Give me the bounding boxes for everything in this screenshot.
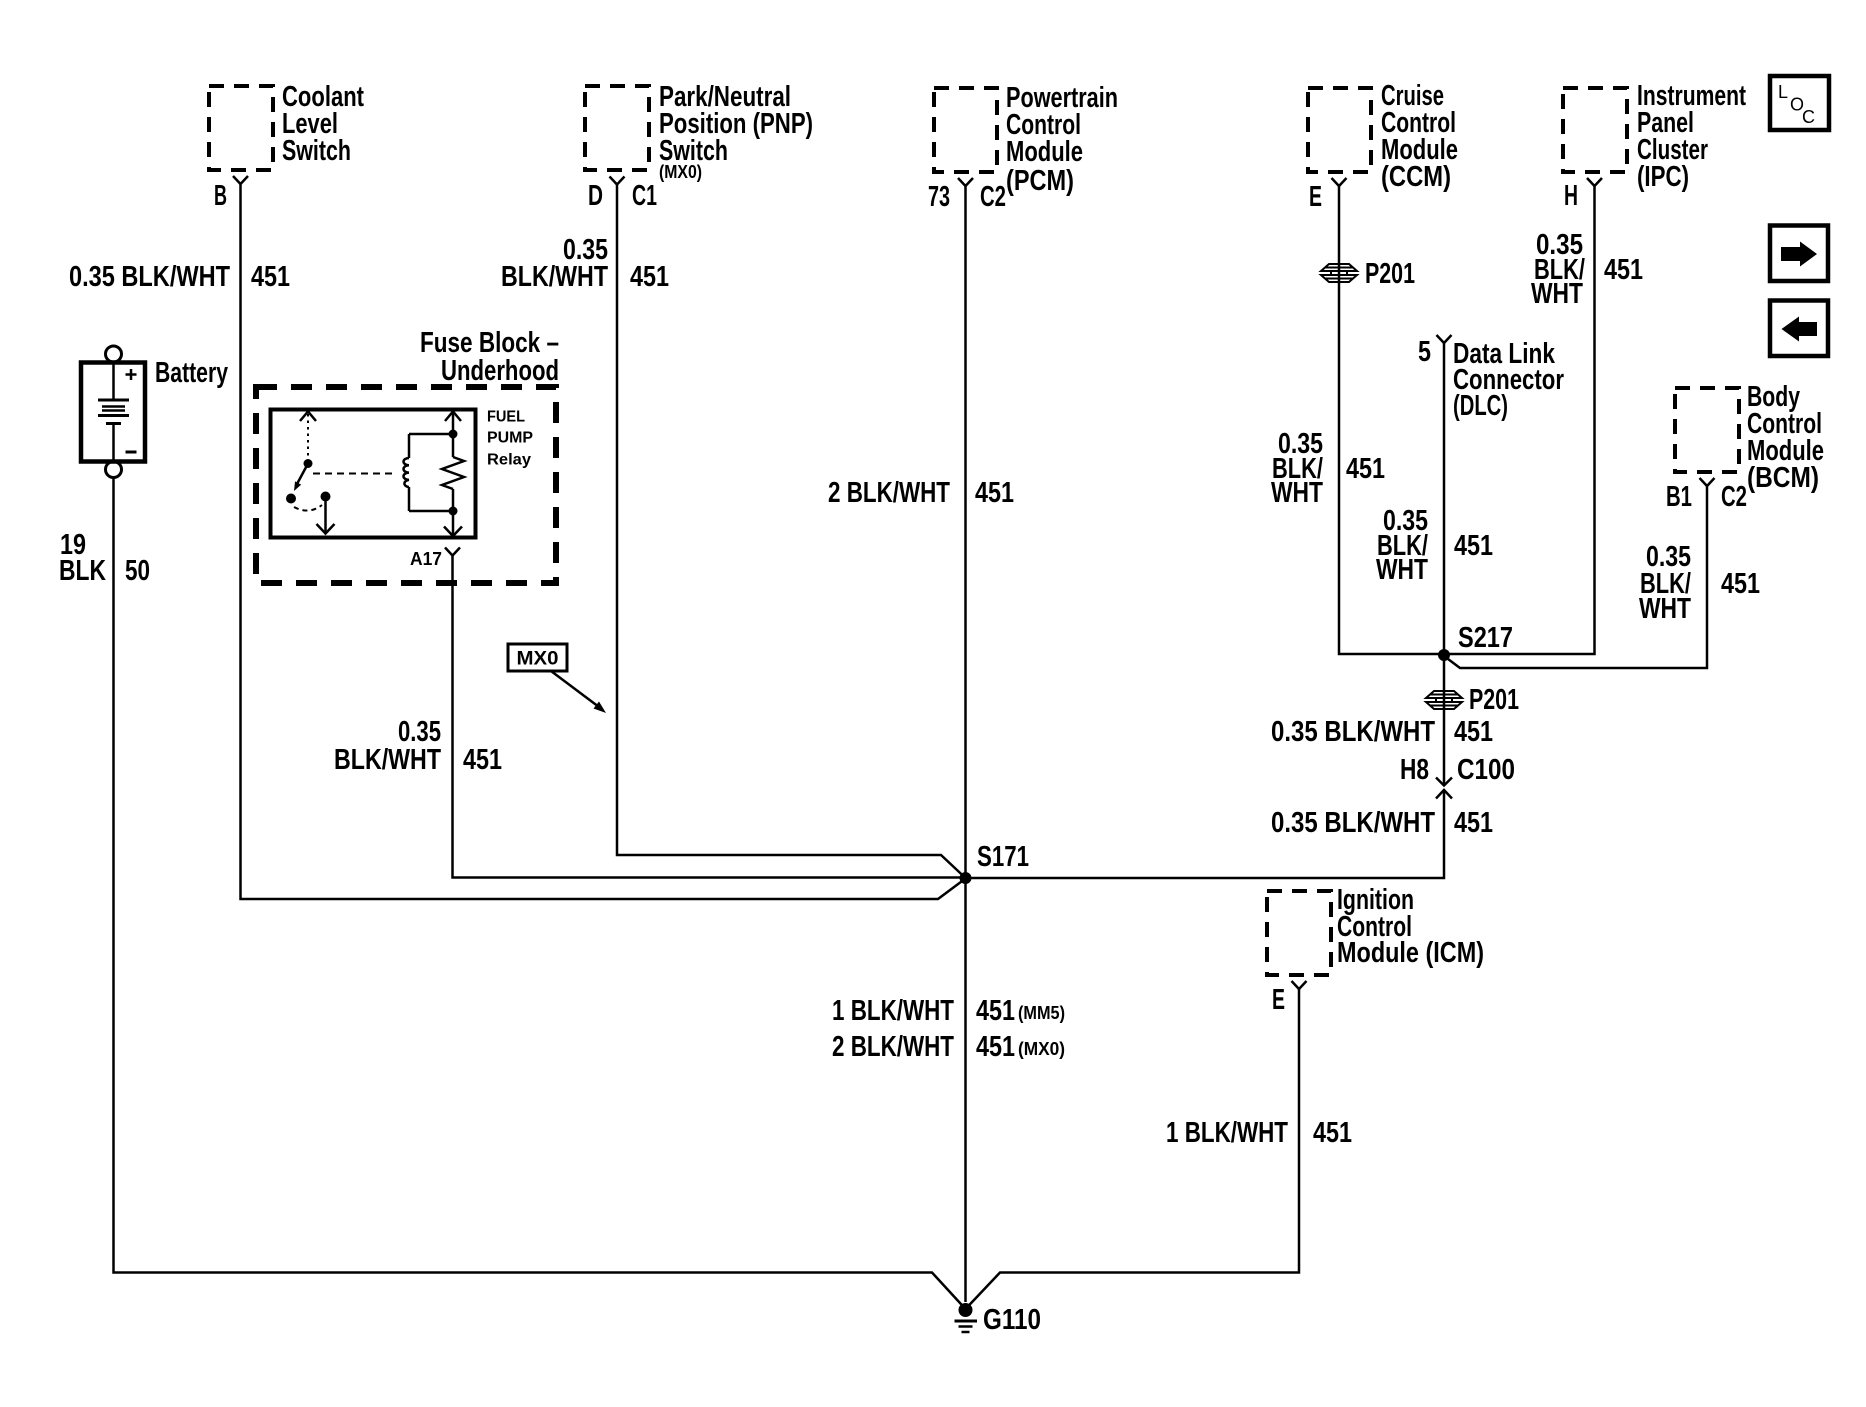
svg-text:50: 50 — [125, 555, 150, 587]
svg-text:B: B — [214, 180, 227, 212]
svg-text:5: 5 — [1418, 336, 1431, 368]
wire 451 from BCM pin B1 to S217 — [1444, 486, 1707, 668]
svg-text:(DLC): (DLC) — [1453, 390, 1508, 422]
svg-text:(BCM): (BCM) — [1747, 462, 1819, 494]
svg-text:E: E — [1309, 181, 1322, 213]
label 1 BLK/WHT 451 (MM5) — [832, 995, 1065, 1027]
svg-text:451: 451 — [975, 477, 1014, 509]
svg-text:451: 451 — [251, 261, 290, 293]
relay switch contact (movable arm) — [287, 412, 335, 534]
LOC icon box — [1770, 76, 1829, 130]
svg-text:(PCM): (PCM) — [1006, 165, 1074, 197]
battery — [81, 346, 228, 478]
svg-text:(MM5): (MM5) — [1018, 1003, 1065, 1023]
MX0 callout box with arrow — [508, 644, 606, 713]
wire 50 from battery negative to G110 — [114, 478, 966, 1310]
splice S217 — [1439, 622, 1514, 661]
connector box: Body Control Module (BCM) — [1675, 381, 1824, 494]
svg-text:0.35 BLK/WHT: 0.35 BLK/WHT — [69, 261, 230, 293]
svg-text:H8: H8 — [1400, 754, 1429, 786]
pin E of CCM — [1309, 178, 1347, 213]
svg-text:L: L — [1778, 82, 1788, 102]
svg-text:0.35 BLK/WHT: 0.35 BLK/WHT — [1271, 716, 1435, 748]
svg-text:C2: C2 — [980, 181, 1006, 213]
wire 451 from ICM pin E to G110 — [966, 989, 1300, 1309]
svg-text:FUEL: FUEL — [487, 409, 525, 426]
svg-text:BLK: BLK — [59, 555, 106, 587]
svg-text:G110: G110 — [983, 1304, 1041, 1336]
svg-text:73: 73 — [928, 181, 950, 213]
svg-text:WHT: WHT — [1531, 278, 1583, 310]
connector P201 on CCM wire — [1321, 258, 1415, 290]
svg-text:2 BLK/WHT: 2 BLK/WHT — [828, 477, 950, 509]
connector box: Ignition Control Module (ICM) — [1267, 884, 1484, 975]
svg-text:H: H — [1564, 180, 1578, 212]
svg-text:WHT: WHT — [1376, 554, 1428, 586]
svg-text:451: 451 — [1346, 453, 1385, 485]
svg-text:(IPC): (IPC) — [1637, 161, 1689, 193]
svg-text:C2: C2 — [1721, 481, 1747, 513]
connector box: Cruise Control Module (CCM) — [1308, 80, 1458, 193]
connector P201 on S217-C100 wire — [1426, 684, 1519, 716]
svg-text:2 BLK/WHT: 2 BLK/WHT — [832, 1031, 954, 1063]
svg-text:451: 451 — [1604, 254, 1643, 286]
wire 451 from PCM pin 73 down through S171 to G110 — [964, 186, 967, 1302]
label 0.35 BLK/WHT 451 (above C100) — [1271, 716, 1493, 748]
svg-text:451: 451 — [1454, 716, 1493, 748]
svg-text:1 BLK/WHT: 1 BLK/WHT — [832, 995, 954, 1027]
svg-text:451: 451 — [1313, 1117, 1352, 1149]
pin A17 of fuse block — [410, 548, 460, 570]
fuse block - underhood dashed box — [256, 327, 559, 583]
svg-text:E: E — [1272, 984, 1285, 1016]
label 0.35 BLK/WHT 451 (CCM wire) — [1271, 428, 1385, 509]
connector box: Coolant Level Switch — [209, 81, 364, 170]
pin D / C1 of PNP Switch — [588, 177, 657, 213]
connector box: Powertrain Control Module (PCM) — [934, 82, 1118, 197]
relay resistor — [442, 412, 464, 537]
svg-text:S171: S171 — [977, 841, 1029, 873]
wire 451 from DLC pin 5 to S217 — [1443, 343, 1446, 654]
label 2 BLK/WHT 451 (MX0) — [832, 1031, 1065, 1063]
svg-text:451: 451 — [1454, 807, 1493, 839]
svg-text:Underhood: Underhood — [441, 355, 559, 387]
wire 451 from fuse block pin A17 to S171 — [453, 556, 961, 878]
ground G110 — [955, 1304, 1042, 1337]
relay coil — [404, 434, 453, 511]
label 0.35 BLK/WHT 451 (BCM wire) — [1639, 541, 1760, 625]
svg-text:MX0: MX0 — [517, 649, 559, 670]
svg-text:C100: C100 — [1457, 754, 1515, 786]
svg-text:Battery: Battery — [155, 357, 228, 389]
label 0.35 BLK/WHT 451 (coolant switch wire) — [69, 261, 290, 293]
splice S171 — [960, 841, 1029, 884]
svg-text:WHT: WHT — [1639, 593, 1691, 625]
label 2 BLK/WHT 451 (PCM wire) — [828, 477, 1014, 509]
pin E of ICM — [1272, 981, 1307, 1016]
svg-text:P201: P201 — [1365, 258, 1415, 290]
svg-text:P201: P201 — [1469, 684, 1519, 716]
label 0.35 BLK/WHT 451 (fuse block wire) — [334, 716, 502, 776]
svg-text:Switch: Switch — [282, 135, 351, 167]
svg-text:451: 451 — [1721, 568, 1760, 600]
svg-text:B1: B1 — [1666, 481, 1692, 513]
svg-text:Module: Module — [1006, 136, 1083, 168]
wire from S217 down to connector C100 — [1443, 655, 1446, 786]
svg-text:451: 451 — [976, 995, 1015, 1027]
svg-text:451: 451 — [1454, 530, 1493, 562]
svg-text:451: 451 — [630, 261, 669, 293]
svg-text:(MX0): (MX0) — [659, 162, 702, 182]
svg-text:BLK/WHT: BLK/WHT — [501, 261, 608, 293]
svg-text:451: 451 — [976, 1031, 1015, 1063]
connector box: Instrument Panel Cluster (IPC) — [1563, 80, 1746, 193]
label 0.35 BLK/WHT 451 (PNP wire) — [501, 234, 669, 293]
left-arrow icon box — [1770, 301, 1828, 357]
wire 451 from CCM pin E to S217 — [1339, 186, 1444, 654]
pin B of Coolant Level Switch — [214, 176, 248, 212]
fuel pump relay box — [271, 409, 534, 538]
svg-text:(MX0): (MX0) — [1018, 1039, 1065, 1059]
pin 73 / C2 of PCM — [928, 178, 1006, 213]
svg-text:0.35 BLK/WHT: 0.35 BLK/WHT — [1271, 807, 1435, 839]
relay actuation dashed link — [313, 473, 395, 475]
connector box: Park/Neutral Position (PNP) Switch — [585, 81, 813, 182]
wire 451 from IPC pin H to S217 — [1444, 186, 1595, 654]
pin B1 / C2 of BCM — [1666, 478, 1747, 513]
svg-text:1 BLK/WHT: 1 BLK/WHT — [1166, 1117, 1288, 1149]
svg-text:(CCM): (CCM) — [1381, 161, 1451, 193]
wire from C100 to S171 — [971, 790, 1444, 878]
label 1 BLK/WHT 451 (ICM wire) — [1166, 1117, 1352, 1149]
connector C100 pin H8 — [1400, 754, 1515, 799]
label 0.35 BLK/WHT 451 (DLC wire) — [1376, 505, 1493, 586]
svg-text:D: D — [588, 180, 603, 212]
right-arrow icon box — [1770, 226, 1828, 282]
svg-text:Relay: Relay — [487, 452, 531, 469]
label 19 BLK 50 (battery wire) — [59, 529, 150, 587]
wire 451 from PNP Switch pin D to S171 — [617, 185, 966, 879]
svg-text:S217: S217 — [1458, 622, 1513, 654]
svg-text:WHT: WHT — [1271, 477, 1323, 509]
svg-text:A17: A17 — [410, 549, 442, 569]
svg-text:C1: C1 — [632, 180, 657, 212]
svg-text:451: 451 — [463, 744, 502, 776]
pin H of IPC — [1564, 178, 1602, 212]
wire 451 from Coolant Level Switch pin B to S171 — [241, 184, 966, 899]
svg-text:PUMP: PUMP — [487, 430, 533, 447]
pin 5 of Data Link Connector (DLC) — [1418, 335, 1564, 422]
svg-text:Module (ICM): Module (ICM) — [1337, 937, 1484, 969]
label 0.35 BLK/WHT 451 (below C100) — [1271, 807, 1493, 839]
label 0.35 BLK/WHT 451 (IPC wire) — [1531, 229, 1643, 310]
svg-text:BLK/WHT: BLK/WHT — [334, 744, 441, 776]
svg-text:C: C — [1802, 107, 1815, 127]
